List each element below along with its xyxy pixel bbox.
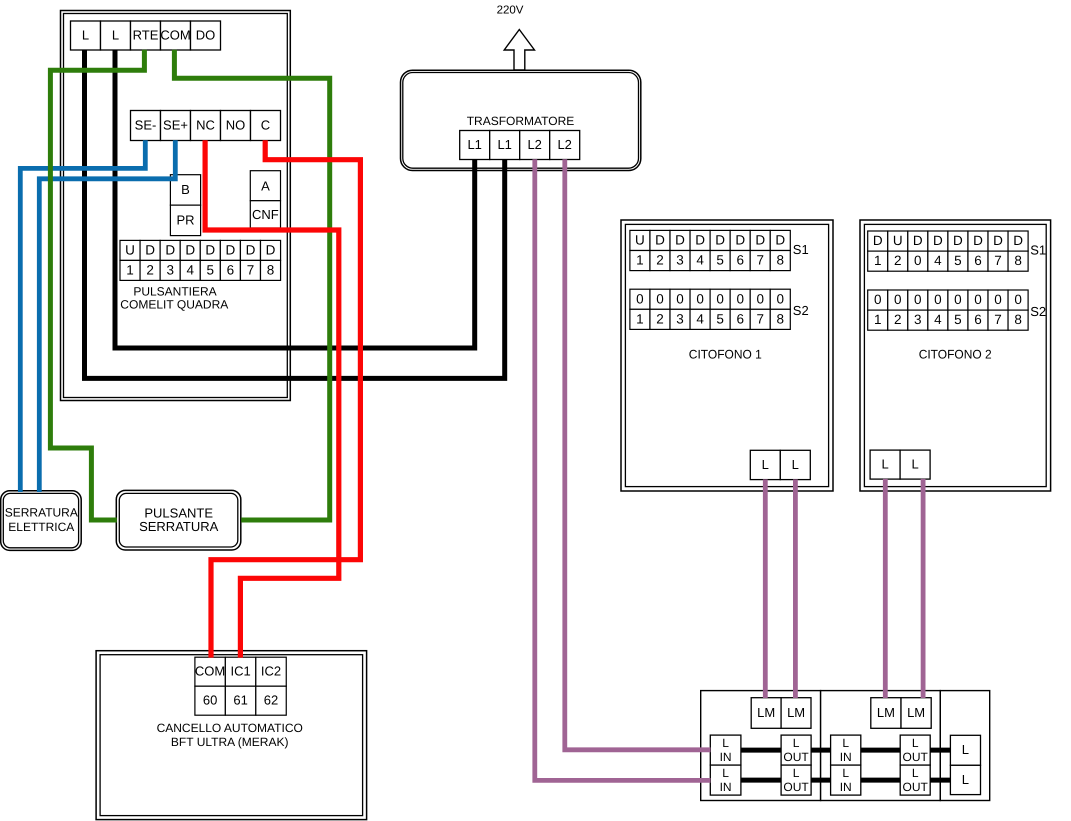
svg-text:5: 5	[716, 253, 724, 268]
svg-text:62: 62	[264, 693, 278, 708]
svg-text:0: 0	[994, 292, 1002, 307]
svg-text:7: 7	[756, 253, 764, 268]
distributor box 2	[821, 691, 941, 801]
svg-text:ELETTRICA: ELETTRICA	[8, 520, 74, 534]
svg-text:D: D	[755, 233, 765, 248]
svg-text:7: 7	[247, 263, 255, 278]
svg-text:SERRATURA: SERRATURA	[5, 506, 78, 520]
svg-text:DO: DO	[196, 27, 216, 42]
svg-text:L: L	[912, 766, 919, 780]
svg-text:3: 3	[914, 312, 922, 327]
svg-text:8: 8	[1014, 253, 1022, 268]
svg-text:4: 4	[934, 312, 942, 327]
cancello terminal table	[195, 657, 286, 715]
svg-text:8: 8	[267, 263, 275, 278]
svg-text:L: L	[962, 742, 969, 757]
wire bus row2 seg3	[861, 778, 900, 783]
citofono1 switch S1	[630, 230, 790, 270]
svg-text:3: 3	[676, 311, 684, 326]
svg-text:L: L	[962, 772, 969, 787]
svg-text:D: D	[873, 233, 883, 248]
terminal A CNF	[250, 171, 280, 228]
svg-text:D: D	[695, 233, 705, 248]
svg-text:L2: L2	[557, 137, 571, 152]
trasformatore box	[401, 70, 641, 170]
svg-text:NC: NC	[196, 117, 215, 132]
svg-text:PULSANTIERA: PULSANTIERA	[133, 285, 216, 299]
distributor1 terminal L-OUT row1	[781, 735, 811, 765]
svg-text:L: L	[82, 27, 89, 42]
svg-text:7: 7	[994, 253, 1002, 268]
wire bus row1 seg1	[741, 748, 781, 753]
svg-text:D: D	[165, 243, 175, 258]
svg-text:0: 0	[914, 292, 922, 307]
wire bus row2 seg1	[741, 778, 781, 783]
svg-text:4: 4	[934, 253, 942, 268]
svg-text:2: 2	[656, 253, 664, 268]
svg-text:6: 6	[227, 263, 235, 278]
svg-text:OUT: OUT	[903, 780, 929, 794]
svg-text:6: 6	[974, 253, 982, 268]
wire red NC to IC1	[205, 140, 339, 657]
svg-text:D: D	[735, 233, 745, 248]
wire purple citofono2 La to LM	[883, 479, 888, 698]
terminal strip L1 L1 L2 L2	[460, 131, 580, 160]
distributor2 terminal L-IN row1	[831, 735, 861, 765]
svg-text:U: U	[125, 243, 135, 258]
svg-text:D: D	[675, 233, 685, 248]
svg-text:4: 4	[186, 263, 194, 278]
svg-text:0: 0	[756, 291, 764, 306]
distributor2 terminal L-IN row2	[831, 765, 861, 795]
svg-text:L2: L2	[527, 137, 541, 152]
svg-text:61: 61	[233, 693, 247, 708]
svg-text:0: 0	[736, 291, 744, 306]
220V supply arrow	[504, 30, 534, 71]
svg-text:COM: COM	[160, 27, 190, 42]
citofono 2 box	[860, 220, 1051, 491]
svg-text:S1: S1	[1030, 243, 1046, 258]
citofono2 switch S1	[868, 231, 1028, 271]
svg-text:A: A	[261, 178, 270, 193]
wire bus row1 seg3	[861, 748, 900, 753]
svg-text:IC1: IC1	[230, 664, 250, 679]
distributor1 terminal L-IN row1	[710, 735, 741, 765]
wire bus row2 seg2	[811, 778, 831, 783]
citofono2 terminals L L	[870, 450, 930, 479]
svg-text:4: 4	[696, 253, 704, 268]
svg-text:CITOFONO 2: CITOFONO 2	[919, 348, 992, 362]
distributor box 1	[701, 691, 821, 801]
svg-text:IN: IN	[840, 780, 852, 794]
svg-text:0: 0	[636, 291, 644, 306]
svg-text:7: 7	[756, 311, 764, 326]
svg-text:D: D	[953, 233, 963, 248]
svg-text:2: 2	[894, 253, 902, 268]
svg-text:L1: L1	[467, 137, 481, 152]
serratura elettrica box	[1, 491, 82, 551]
svg-text:D: D	[205, 243, 215, 258]
svg-text:L: L	[842, 736, 849, 750]
svg-text:D: D	[913, 233, 923, 248]
svg-text:D: D	[775, 233, 785, 248]
svg-text:0: 0	[716, 291, 724, 306]
svg-text:8: 8	[777, 311, 785, 326]
svg-text:COM: COM	[195, 664, 225, 679]
svg-text:L: L	[722, 766, 729, 780]
svg-text:SE+: SE+	[163, 117, 188, 132]
svg-text:IN: IN	[720, 780, 732, 794]
wire purple citofono1 La to LM	[763, 479, 768, 698]
svg-text:S2: S2	[793, 303, 809, 318]
svg-text:D: D	[226, 243, 236, 258]
svg-text:1: 1	[874, 312, 882, 327]
svg-text:8: 8	[777, 253, 785, 268]
svg-text:CITOFONO 1: CITOFONO 1	[689, 348, 762, 362]
svg-text:RTE: RTE	[133, 27, 159, 42]
svg-text:1: 1	[636, 253, 644, 268]
svg-text:S2: S2	[1030, 304, 1046, 319]
svg-text:1: 1	[636, 311, 644, 326]
svg-text:D: D	[655, 233, 665, 248]
citofono1 switch S2	[630, 289, 790, 329]
distributor3 terminal L row2	[950, 765, 980, 794]
svg-text:OUT: OUT	[903, 750, 929, 764]
svg-text:6: 6	[736, 253, 744, 268]
svg-text:IN: IN	[840, 750, 852, 764]
svg-text:0: 0	[676, 291, 684, 306]
svg-text:1: 1	[126, 263, 134, 278]
svg-text:D: D	[715, 233, 725, 248]
svg-text:6: 6	[736, 311, 744, 326]
svg-text:L: L	[912, 736, 919, 750]
terminal strip SE- SE+ NC NO C	[131, 111, 281, 141]
svg-text:0: 0	[874, 292, 882, 307]
svg-text:0: 0	[696, 291, 704, 306]
svg-text:NO: NO	[226, 117, 246, 132]
pulsantiera enclosure box	[61, 11, 291, 401]
svg-text:5: 5	[954, 312, 962, 327]
distributor3 terminal L row1	[950, 735, 980, 765]
wire black L1-to-L1b	[85, 50, 505, 379]
distributor box 3	[940, 691, 989, 801]
wire bus row1 seg4	[930, 748, 950, 753]
svg-text:L: L	[881, 457, 888, 472]
svg-text:C: C	[261, 117, 270, 132]
svg-text:CNF: CNF	[252, 207, 279, 222]
svg-text:LM: LM	[877, 705, 895, 720]
svg-text:LM: LM	[787, 705, 805, 720]
citofono 1 box	[621, 220, 833, 491]
svg-text:2: 2	[894, 312, 902, 327]
svg-text:D: D	[1013, 233, 1023, 248]
svg-text:LM: LM	[757, 705, 775, 720]
wire blue SE- to serratura	[20, 140, 145, 492]
svg-text:2: 2	[146, 263, 154, 278]
distributor2 terminal L-OUT row2	[900, 765, 930, 795]
svg-text:D: D	[933, 233, 943, 248]
svg-text:L1: L1	[497, 137, 511, 152]
wire green COM to pulsante	[174, 50, 329, 520]
svg-text:0: 0	[974, 292, 982, 307]
distributor1 terminal L-IN row2	[710, 765, 741, 795]
svg-text:L: L	[842, 766, 849, 780]
svg-text:D: D	[266, 243, 276, 258]
svg-text:5: 5	[954, 253, 962, 268]
svg-text:B: B	[181, 182, 190, 197]
svg-text:BFT ULTRA (MERAK): BFT ULTRA (MERAK)	[171, 735, 289, 749]
pulsante serratura box	[116, 490, 241, 550]
svg-text:2: 2	[656, 311, 664, 326]
svg-text:5: 5	[716, 311, 724, 326]
svg-text:IC2: IC2	[261, 664, 281, 679]
distributor1 terminals LM LM	[751, 698, 811, 729]
svg-text:0: 0	[1014, 292, 1022, 307]
wire purple citofono1 Lb to LM	[793, 479, 798, 698]
svg-text:D: D	[246, 243, 256, 258]
svg-text:L: L	[722, 736, 729, 750]
svg-text:60: 60	[203, 693, 217, 708]
svg-text:8: 8	[1014, 312, 1022, 327]
svg-text:OUT: OUT	[783, 780, 809, 794]
wire purple L2b to L-IN row1	[565, 159, 711, 750]
svg-text:SERRATURA: SERRATURA	[139, 519, 219, 534]
wire bus row2 seg4	[930, 778, 950, 783]
svg-text:6: 6	[974, 312, 982, 327]
svg-text:SE-: SE-	[135, 117, 157, 132]
wire red C to COM	[211, 140, 360, 657]
citofono1 terminals L L	[750, 450, 810, 479]
terminal strip L L RTE COM DO	[71, 21, 221, 50]
svg-text:COMELIT QUADRA: COMELIT QUADRA	[120, 298, 228, 312]
svg-text:0: 0	[934, 292, 942, 307]
svg-text:3: 3	[676, 253, 684, 268]
wire bus row1 seg2	[811, 748, 831, 753]
wire purple citofono2 Lb to LM	[921, 479, 926, 698]
svg-text:D: D	[973, 233, 983, 248]
svg-text:0: 0	[894, 292, 902, 307]
wire green RTE to pulsante	[50, 50, 144, 520]
citofono2 switch S2	[868, 290, 1028, 330]
svg-text:OUT: OUT	[783, 750, 809, 764]
distributor2 terminals LM LM	[871, 698, 931, 729]
pulsantiera dip table	[120, 240, 281, 280]
svg-text:L: L	[911, 457, 918, 472]
svg-text:D: D	[993, 233, 1003, 248]
svg-text:3: 3	[166, 263, 174, 278]
svg-text:L: L	[762, 457, 769, 472]
svg-text:D: D	[145, 243, 155, 258]
wire purple L2a to L-IN row2	[535, 159, 711, 780]
svg-text:L: L	[793, 766, 800, 780]
svg-text:0: 0	[954, 292, 962, 307]
svg-text:TRASFORMATORE: TRASFORMATORE	[467, 114, 575, 128]
distributor1 terminal L-OUT row2	[781, 765, 811, 795]
svg-text:0: 0	[777, 291, 785, 306]
svg-text:CANCELLO AUTOMATICO: CANCELLO AUTOMATICO	[157, 721, 303, 735]
svg-text:1: 1	[874, 253, 882, 268]
svg-text:5: 5	[207, 263, 215, 278]
svg-text:0: 0	[656, 291, 664, 306]
svg-text:L: L	[793, 736, 800, 750]
wire blue SE+ to serratura	[39, 140, 175, 492]
svg-text:LM: LM	[907, 705, 925, 720]
svg-text:0: 0	[914, 253, 922, 268]
svg-text:U: U	[893, 233, 903, 248]
svg-text:IN: IN	[720, 750, 732, 764]
svg-text:PR: PR	[176, 212, 194, 227]
distributor2 terminal L-OUT row1	[900, 735, 930, 765]
wire black L2-to-L1a	[115, 50, 475, 349]
cancello automatico box	[96, 651, 367, 820]
svg-text:S1: S1	[793, 242, 809, 257]
svg-text:U: U	[635, 233, 645, 248]
svg-text:4: 4	[696, 311, 704, 326]
terminal B PR	[170, 175, 200, 236]
svg-text:7: 7	[994, 312, 1002, 327]
svg-text:D: D	[185, 243, 195, 258]
svg-text:220V: 220V	[497, 5, 524, 17]
svg-text:L: L	[112, 27, 119, 42]
svg-text:L: L	[792, 457, 799, 472]
